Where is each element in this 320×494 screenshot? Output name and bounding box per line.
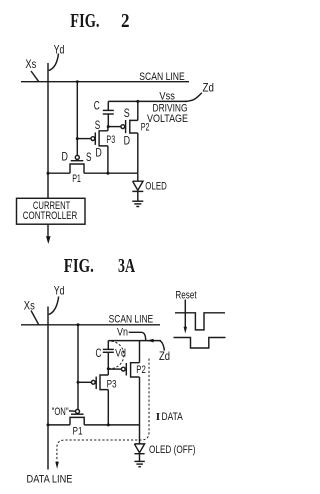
junction Yd/P1 drain <box>47 423 50 426</box>
title FIG. 2 <box>70 11 129 32</box>
leader Vd dashed arc <box>109 341 124 368</box>
svg-text:D: D <box>62 150 69 164</box>
svg-text:FIG.: FIG. <box>64 256 94 277</box>
leader Xs <box>31 71 39 82</box>
svg-text:P3: P3 <box>106 134 115 146</box>
svg-text:Zd: Zd <box>203 81 214 95</box>
wire scan line <box>21 324 160 326</box>
svg-text:OLED: OLED <box>145 180 167 192</box>
svg-text:CONTROLLER: CONTROLLER <box>23 210 77 222</box>
capacitor C <box>103 101 114 126</box>
ground <box>134 461 144 466</box>
wire S node to P2 gate <box>108 126 121 128</box>
leader Xs <box>31 311 39 325</box>
transistor P3 <box>78 369 108 425</box>
svg-text:Xs: Xs <box>24 298 35 312</box>
svg-text:Zd: Zd <box>159 349 170 363</box>
wire Vss rail <box>108 100 187 102</box>
leader Yd <box>49 54 59 71</box>
svg-text:Xs: Xs <box>25 57 36 71</box>
junction branch/P3 gate <box>77 381 80 384</box>
transistor P2 <box>121 101 138 173</box>
leader Yd <box>49 297 59 315</box>
svg-text:2: 2 <box>121 11 130 32</box>
wire gate branch <box>77 325 79 410</box>
wire output arrow <box>46 224 51 244</box>
transistor P1 <box>70 409 84 425</box>
svg-text:S: S <box>86 150 92 164</box>
node line Vn/Zd <box>108 340 161 342</box>
arrow current into node <box>147 339 154 343</box>
svg-text:OLED (OFF): OLED (OFF) <box>149 444 196 456</box>
transistor P1 <box>70 155 84 173</box>
junction Yd/P1 drain <box>47 172 50 175</box>
svg-text:"ON": "ON" <box>52 406 69 418</box>
svg-text:P2: P2 <box>141 122 150 134</box>
transistor P3 <box>77 127 108 174</box>
junction P3 drain/row <box>106 172 109 175</box>
svg-text:C: C <box>94 98 100 112</box>
arrow Reset <box>184 300 187 334</box>
svg-text:SCAN LINE: SCAN LINE <box>109 314 154 326</box>
svg-text:S: S <box>124 106 130 120</box>
svg-text:Yd: Yd <box>54 283 65 297</box>
lead Zd curl <box>160 341 165 351</box>
junction scan/branch <box>76 80 79 83</box>
diode OLED (off) <box>134 444 144 461</box>
leader ON dash <box>69 410 75 412</box>
svg-text:P1: P1 <box>73 426 83 438</box>
label I DATA <box>156 411 183 423</box>
lead Zd curl <box>185 93 202 102</box>
junction scan/branch <box>77 323 80 326</box>
wire scan line <box>21 81 189 83</box>
wire gate branch from scan line <box>76 82 78 156</box>
label DRIVING VOLTAGE <box>147 102 188 124</box>
wire data line Yd vertical <box>47 307 49 470</box>
svg-text:D: D <box>124 133 131 147</box>
diode OLED <box>132 173 143 201</box>
ground <box>132 201 143 206</box>
wire source row <box>48 424 140 426</box>
svg-text:VOLTAGE: VOLTAGE <box>147 113 188 125</box>
svg-text:DATA: DATA <box>162 411 184 423</box>
transistor P2 <box>121 341 139 444</box>
svg-text:DATA LINE: DATA LINE <box>27 473 73 485</box>
leader Vn <box>129 332 146 340</box>
svg-text:P1: P1 <box>72 173 81 185</box>
junction branch/P3 gate <box>76 137 79 140</box>
wire data line Yd vertical <box>47 63 49 198</box>
wire source row <box>48 172 138 174</box>
waveform bottom <box>174 338 226 349</box>
svg-text:I: I <box>156 411 160 423</box>
svg-text:C: C <box>96 346 102 360</box>
svg-text:3A: 3A <box>118 256 135 277</box>
dashed current path I DATA <box>55 359 149 469</box>
svg-text:D: D <box>95 145 102 159</box>
junction P3 drain/row <box>107 423 110 426</box>
capacitor C <box>103 341 114 369</box>
svg-text:Vss: Vss <box>159 90 175 102</box>
svg-text:FIG.: FIG. <box>70 11 99 32</box>
svg-text:P2: P2 <box>136 364 146 376</box>
svg-text:Vd: Vd <box>115 347 126 359</box>
junction cap/P2 gate <box>107 367 110 370</box>
waveform top <box>175 313 225 330</box>
current controller box <box>17 198 86 224</box>
wire node to P2 gate <box>108 368 121 370</box>
svg-text:Reset: Reset <box>175 290 197 302</box>
title FIG. 3A <box>64 256 135 277</box>
svg-text:Vn: Vn <box>117 327 128 339</box>
node S junction under capacitor <box>107 125 110 128</box>
junction P2/rail <box>136 100 139 103</box>
svg-text:P3: P3 <box>107 378 117 390</box>
